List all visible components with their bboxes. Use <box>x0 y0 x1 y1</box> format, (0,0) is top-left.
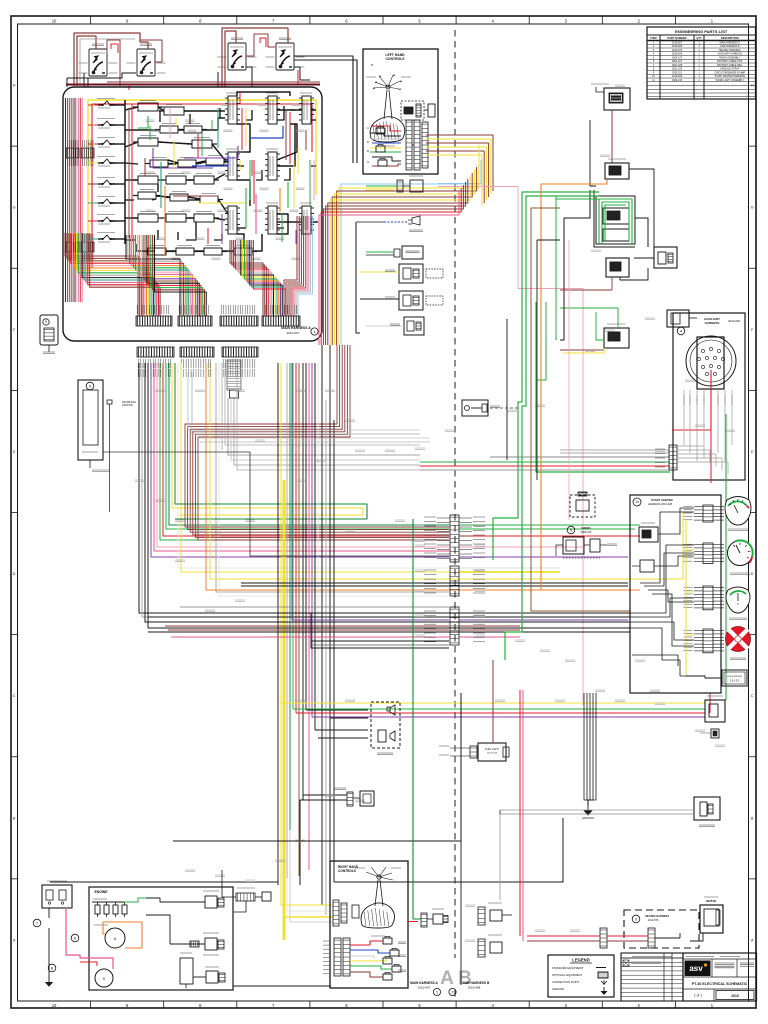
svg-text:BATTERY CABLE NEG: BATTERY CABLE NEG <box>717 64 742 67</box>
circuit breaker box 9 <box>78 380 110 472</box>
right ruler ticks <box>749 84 757 943</box>
black interconnect mesh inside harness <box>125 92 318 251</box>
speaker wires dashed <box>563 557 600 559</box>
svg-text:10: 10 <box>52 1003 57 1008</box>
joystick right hand <box>355 867 401 936</box>
svg-text:HEATED HARNESS: HEATED HARNESS <box>645 914 669 918</box>
svg-text:0202-115: 0202-115 <box>672 71 683 74</box>
circled 9 breaker <box>86 382 94 390</box>
asv logo <box>685 961 711 977</box>
svg-text:1 of 1: 1 of 1 <box>694 994 702 998</box>
svg-text:GROUND: GROUND <box>552 987 564 991</box>
svg-text:10: 10 <box>52 18 57 23</box>
antenna connector with blue dashes <box>384 216 423 232</box>
relay K2 flasher relay <box>127 44 166 76</box>
starter circle <box>95 969 113 990</box>
svg-text:JS-70-643: JS-70-643 <box>487 753 498 755</box>
wire label texture inside harness <box>132 104 305 260</box>
wire black relay bottom bus K3 K4 <box>218 67 310 87</box>
wire black from relay K4 to mid column <box>294 56 357 163</box>
svg-text:D: D <box>751 572 754 576</box>
wire green long vertical A <box>493 192 599 560</box>
gray multi-pin connector block below harness <box>227 360 241 398</box>
svg-text:2010-608: 2010-608 <box>672 45 683 48</box>
svg-text:G: G <box>367 160 369 164</box>
LH controls small plug boxes <box>376 127 387 167</box>
svg-text:0304-372: 0304-372 <box>581 530 593 534</box>
wire long black horizontals lower page <box>50 693 563 882</box>
LH controls wire terminal column labels <box>367 126 369 164</box>
yellow verticals inside instrument panel <box>683 512 694 676</box>
aux box top-left connector <box>667 310 697 327</box>
connector combs left lower <box>66 234 94 260</box>
circled 8 ground strap <box>48 964 56 972</box>
wire green long vertical B <box>505 196 599 660</box>
component boxes and black wiring mesh inside harness <box>133 93 314 255</box>
wire stubs colored to switches <box>88 105 98 239</box>
svg-text:0304-372: 0304-372 <box>672 56 683 59</box>
svg-text:START CENTER HARNESS: START CENTER HARNESS <box>715 75 746 78</box>
RH controls connector strips <box>323 938 350 976</box>
battery disconnect box <box>42 881 72 908</box>
wire bundle center vertical drop <box>278 345 334 915</box>
svg-text:ITEM: ITEM <box>650 36 656 40</box>
left hand controls label <box>371 53 405 67</box>
relay K1 horn relay <box>79 44 118 76</box>
engine box <box>89 887 233 990</box>
svg-text:HEATED HARNESS: HEATED HARNESS <box>719 49 741 52</box>
auxiliary connector red wire <box>672 370 711 430</box>
svg-text:2010-607: 2010-607 <box>418 986 431 990</box>
connector combs left mid <box>66 140 94 166</box>
svg-text:START CENTER: START CENTER <box>651 498 672 502</box>
svg-text:2010-608: 2010-608 <box>468 986 481 990</box>
A-B interface connector strip 1 <box>424 515 485 562</box>
wire red below instrument panel <box>709 693 711 713</box>
battery ground symbol <box>45 958 53 987</box>
relay K3 dome relay <box>218 38 257 70</box>
svg-text:DESCRIPTION: DESCRIPTION <box>721 36 739 40</box>
wire maroon bus over relays K1 K2 <box>74 33 162 86</box>
wire red battery to starter <box>49 908 80 958</box>
wire from breaker east <box>103 452 449 556</box>
svg-text:BATTERY CABLE POS: BATTERY CABLE POS <box>717 60 742 63</box>
work light connector upper <box>366 176 423 192</box>
auxiliary harness label <box>704 317 740 325</box>
wire maroon drop from fuel solenoid <box>611 110 613 163</box>
svg-text:0409-215: 0409-215 <box>672 79 683 82</box>
wire gray hooks in aux box bottom <box>677 446 728 474</box>
right hand controls box <box>330 861 408 988</box>
black wiring inside instrument panel <box>630 508 694 676</box>
relay box brake <box>606 258 629 290</box>
circled 2 bottom <box>449 988 456 995</box>
wire gray relay feeds <box>80 39 135 86</box>
wire group to backup alarm <box>281 703 705 717</box>
circled 1 bottom <box>433 988 440 995</box>
auxiliary connector inner rect <box>697 337 724 389</box>
svg-text:2010-576: 2010-576 <box>672 49 683 52</box>
engineering parts list table <box>647 27 756 99</box>
A-B split dashed line lower <box>454 990 456 997</box>
wires to lower relay maroon yellow green <box>560 308 618 353</box>
relay small box lower <box>366 317 424 335</box>
frame rail tiny connector <box>107 400 137 512</box>
legend box <box>548 955 614 997</box>
pressure sender box inside panel <box>632 560 654 572</box>
svg-text:2010-628: 2010-628 <box>672 75 683 78</box>
svg-text:LEGEND: LEGEND <box>572 958 589 963</box>
main harness A item number 1 <box>311 328 318 335</box>
wire purple-darkred bundle from center to AB connectors <box>165 363 449 648</box>
radio label <box>581 526 593 534</box>
circled 4 auxiliary <box>677 327 685 335</box>
relay cluster green loops box <box>596 196 635 244</box>
circled 5 radio <box>567 526 575 534</box>
svg-text:CONTROLS: CONTROLS <box>385 57 405 61</box>
wire brown vertical right of center <box>531 208 630 611</box>
connector strip row inside harness bottom <box>136 305 300 326</box>
auxiliary harness box <box>673 313 745 480</box>
svg-text:F: F <box>737 602 739 606</box>
LH controls connector strips vertical <box>406 120 428 170</box>
svg-text:C: C <box>367 126 369 130</box>
svg-text:CIRCUIT BREAKER 90 AMP: CIRCUIT BREAKER 90 AMP <box>714 71 745 74</box>
circled 7 battery <box>33 919 41 927</box>
wire green into RH area connector <box>408 519 448 927</box>
wire bundle maroon from harness to engine area <box>185 345 449 540</box>
heater box <box>700 897 723 933</box>
svg-text:MAIN HARNESS A: MAIN HARNESS A <box>410 981 438 985</box>
wire bundle gray-black descending to mid connectors <box>222 363 420 470</box>
wire red pair vertical center-bottom <box>520 690 523 941</box>
wire green short jogs top right <box>536 199 599 380</box>
wire red from aux down to box bottom <box>710 430 712 483</box>
svg-text:2010: 2010 <box>731 994 739 998</box>
svg-text:RADIO ASSEMBLY: RADIO ASSEMBLY <box>719 56 740 59</box>
wire green loop mid page <box>172 504 367 519</box>
svg-text:2010-609: 2010-609 <box>672 53 683 56</box>
connector strip row below harness <box>137 347 258 368</box>
title block company text <box>715 963 755 968</box>
relay box lower right mid <box>604 324 629 348</box>
svg-text:D: D <box>367 140 369 144</box>
svg-text:A: A <box>114 936 117 941</box>
wire red risers to relays <box>111 38 298 90</box>
tiny connector below alarm <box>700 729 719 738</box>
wire green vertical D <box>556 196 580 340</box>
start center harness label <box>648 498 673 506</box>
svg-text:C: C <box>13 694 16 698</box>
colored jumper wires inside harness mesh <box>129 92 306 256</box>
wire black right column down <box>460 693 462 985</box>
wire maroon thick bus above harness <box>66 82 320 85</box>
wire pink long from LH controls to right side <box>438 187 583 706</box>
svg-text:HEATER: HEATER <box>706 899 717 903</box>
wire red heater loop <box>527 933 703 941</box>
wire black relay bottom bus K1 K2 <box>67 73 136 87</box>
cab harness connectors mid-bottom <box>478 903 512 957</box>
circled 3 heated harness <box>632 915 640 923</box>
wire yellow thick center drop <box>283 480 286 940</box>
wire gray maze mid corridor <box>188 372 430 442</box>
glow plugs <box>92 898 146 917</box>
top ruler band ticks and numbers <box>52 16 714 24</box>
wire colored horizontals A-B connector to right <box>459 525 640 637</box>
cab harness B bottom label <box>463 981 490 990</box>
wire yellow ring inside harness <box>88 100 316 272</box>
wire darkred to fuel light <box>492 690 494 743</box>
svg-text:B: B <box>367 149 369 153</box>
relay box glow controller <box>605 159 629 179</box>
svg-text:ENGINE: ENGINE <box>95 890 109 894</box>
right side switch box with plug <box>360 291 443 310</box>
svg-text:ENGINEERING PARTS LIST: ENGINEERING PARTS LIST <box>675 29 728 34</box>
coolant temp sender component <box>180 953 193 988</box>
svg-text:CAB HARNESS B: CAB HARNESS B <box>463 981 490 985</box>
warning cluster red clover <box>718 619 758 659</box>
oil pressure sender component <box>170 933 224 955</box>
wire gray pair down right <box>499 814 501 900</box>
wire to hour meter <box>686 676 722 678</box>
svg-text:FUEL LIGHT: FUEL LIGHT <box>485 748 499 751</box>
circled 6 battery cable <box>71 934 79 942</box>
svg-text:GROUND STRAP: GROUND STRAP <box>720 68 740 71</box>
rocker switch column <box>97 99 125 243</box>
wire black group to horn box <box>306 710 368 738</box>
connector plug right of dashed box <box>424 104 435 117</box>
svg-text:HOUR METER: HOUR METER <box>727 676 742 678</box>
extra black hooks inside instrument panel <box>632 512 694 666</box>
svg-text:9: 9 <box>45 320 47 324</box>
svg-text:2010-607: 2010-607 <box>672 41 683 44</box>
svg-text:PT-30 ELECTRICAL SCHEMATIC: PT-30 ELECTRICAL SCHEMATIC <box>692 982 748 986</box>
ground symbol center <box>582 804 594 820</box>
auxiliary pin drop wires gray <box>684 390 732 461</box>
wire bundle maroon-yellow from LH controls wrapping west <box>426 135 493 206</box>
wire green loops around relay cluster <box>599 199 632 244</box>
small connector box left edge <box>40 315 58 354</box>
relay K4 aux relay <box>266 38 305 70</box>
extra mesh segments inside harness <box>125 106 316 251</box>
black wire outlines around right relays <box>560 120 654 290</box>
alternator exciter component <box>182 891 224 908</box>
svg-text:WORK LIGHT ASSEMBLY: WORK LIGHT ASSEMBLY <box>716 79 745 82</box>
wire fan bundle lower-right of harness <box>230 240 286 316</box>
radio dashed box <box>570 492 595 517</box>
svg-text:CAB HARNESS B: CAB HARNESS B <box>720 45 740 48</box>
svg-text:0201-328: 0201-328 <box>672 64 683 67</box>
svg-text:OPTIONAL EQUIPMENT: OPTIONAL EQUIPMENT <box>552 973 583 977</box>
black wires inside engine box <box>146 898 331 986</box>
A-B interface connector strip 2 <box>424 566 485 596</box>
svg-text:D: D <box>13 572 16 576</box>
connector label tick rows below harness <box>138 369 255 377</box>
svg-text:STANDARD EQUIPMENT: STANDARD EQUIPMENT <box>552 966 584 970</box>
gauge tachometer circle <box>728 540 753 574</box>
wire group black horizontals into instrument panel <box>148 583 630 645</box>
svg-text:A: A <box>440 968 454 989</box>
wires gray to start aid <box>500 810 694 814</box>
A-B interface connector strip 3 <box>424 607 485 645</box>
svg-text:CONTROLS: CONTROLS <box>338 869 356 873</box>
svg-text:0201-329: 0201-329 <box>672 68 683 71</box>
horn dashed box <box>371 702 400 755</box>
auxiliary round connector <box>686 336 736 386</box>
heated harness connectors <box>600 928 655 948</box>
wire green from aux box down <box>725 480 727 700</box>
wire orange from harness down and east <box>206 363 595 590</box>
left ruler ticks <box>11 84 18 943</box>
wire darkred label stub <box>492 660 494 690</box>
wire pink thin vertical right of center <box>568 240 570 520</box>
svg-text:asv: asv <box>689 964 703 973</box>
aux rocker dashed box in LH controls <box>401 101 424 120</box>
wire yellow riser at wrap corner <box>478 145 480 188</box>
key switch box <box>366 246 423 259</box>
wire black pair to dome light <box>300 795 347 885</box>
circled 10 start center <box>633 498 641 506</box>
svg-text:AUXILIARY HARNESS: AUXILIARY HARNESS <box>717 53 742 56</box>
backup alarm component <box>705 696 725 722</box>
RH controls left connectors <box>333 900 359 926</box>
left hand controls box <box>363 49 438 174</box>
svg-text:2010-576: 2010-576 <box>648 919 659 922</box>
main harness A bottom label <box>410 981 438 990</box>
start aid component <box>694 797 720 827</box>
heated harness dashed box <box>624 910 699 948</box>
connector box right of cluster <box>634 247 677 268</box>
svg-text:0201-327: 0201-327 <box>672 60 683 63</box>
radio component boxes <box>556 537 617 556</box>
svg-text:G: G <box>751 206 754 210</box>
revision table <box>621 953 683 1001</box>
joystick left hand <box>366 75 411 147</box>
black bus vertical beside switches <box>124 100 126 244</box>
svg-text:GROUND: GROUND <box>122 404 133 407</box>
svg-text:MAIN HARNESS A: MAIN HARNESS A <box>720 41 741 44</box>
svg-text:G: G <box>13 206 16 210</box>
auxiliary connector green wire <box>725 414 727 480</box>
glow plug relay connector above engine <box>233 888 271 912</box>
relay box fuel solenoid top right <box>591 84 630 110</box>
svg-text:B: B <box>371 63 373 67</box>
wire gray horizontals to auxiliary connector <box>420 450 670 470</box>
hour meter box <box>722 670 747 686</box>
alternator circle <box>94 925 125 948</box>
bottom ruler band ticks and numbers <box>52 1001 714 1008</box>
A-B split dashed line <box>454 30 456 958</box>
black verticals right of center <box>507 240 560 480</box>
svg-text:MAIN HARNESS A: MAIN HARNESS A <box>281 326 311 330</box>
wire yellow-white pair into right hand controls <box>281 363 333 940</box>
ground wires from instrument panel <box>584 693 596 806</box>
wire orange alternator loop <box>103 922 142 948</box>
relay box inside instrument panel <box>639 523 658 542</box>
svg-text:10: 10 <box>635 500 639 504</box>
title block <box>683 953 757 1001</box>
gauge voltmeter shield face <box>725 497 751 531</box>
main harness A label <box>281 326 311 335</box>
wire fan maroon wrap into right strip <box>284 216 312 316</box>
start center harness box <box>630 495 721 693</box>
wire maroon bus over relays K3 K4 <box>222 28 288 87</box>
title block bottom row <box>683 989 757 1001</box>
svg-text:PART NUMBER: PART NUMBER <box>668 36 687 40</box>
instrument panel connector strips <box>684 505 714 653</box>
dome light connector <box>334 788 374 806</box>
horn button component <box>462 400 520 416</box>
wire orange feed to glow controller <box>541 179 607 184</box>
wire yellow long to instrument panel <box>210 363 683 579</box>
svg-text:2010-609: 2010-609 <box>728 319 740 323</box>
svg-text:H: H <box>13 84 16 88</box>
main harness A outline box <box>63 87 322 341</box>
svg-text:CONNECTION POINT: CONNECTION POINT <box>552 980 579 984</box>
black vertical feed for mid column <box>356 222 384 333</box>
wire skyblue from LH controls area <box>438 183 481 186</box>
RH controls colored wires and plugs <box>350 937 406 981</box>
svg-text:C: C <box>751 694 754 698</box>
left side switch box with plug <box>360 264 443 283</box>
heated harness label <box>645 914 669 922</box>
svg-text:QTY: QTY <box>696 36 702 40</box>
LH controls colored wires to connector strips <box>370 126 401 166</box>
wire bundle left vertical maroon group inside harness <box>66 98 83 302</box>
water temp component <box>193 967 225 983</box>
gauge wires to connectors <box>713 507 724 651</box>
wire green vertical C <box>536 302 670 472</box>
gauge fuel shield face <box>726 587 750 620</box>
wire bundle wrap westward around harness corner <box>319 160 481 345</box>
wire fan bundle lower-center of harness <box>126 235 206 316</box>
wire red pink to starter <box>80 958 113 969</box>
flood light component <box>439 743 509 761</box>
right hand controls label <box>338 865 359 873</box>
wire fan bundle lower-left corner of harness <box>65 233 160 316</box>
wire colored verticals right columns inside harness <box>170 108 314 244</box>
wire bundle main drop from harness connector row <box>139 363 630 628</box>
wire pair from center to glow connector <box>222 870 236 897</box>
svg-text:RADIO: RADIO <box>581 526 591 530</box>
black outline path around right relays <box>560 190 648 340</box>
wire orange vertical right of center <box>541 184 607 590</box>
wire red ring inside harness <box>92 104 312 268</box>
svg-text:GROUND: GROUND <box>582 816 594 820</box>
auxiliary lower connector strip <box>655 445 677 470</box>
wire label texture page wide <box>135 85 735 942</box>
svg-text:2010-607: 2010-607 <box>287 331 300 335</box>
svg-text:HARNESS 2010-628: HARNESS 2010-628 <box>648 502 673 506</box>
svg-text:0 0 0 0 0: 0 0 0 0 0 <box>730 680 740 683</box>
svg-text:HARNESS: HARNESS <box>705 321 720 325</box>
